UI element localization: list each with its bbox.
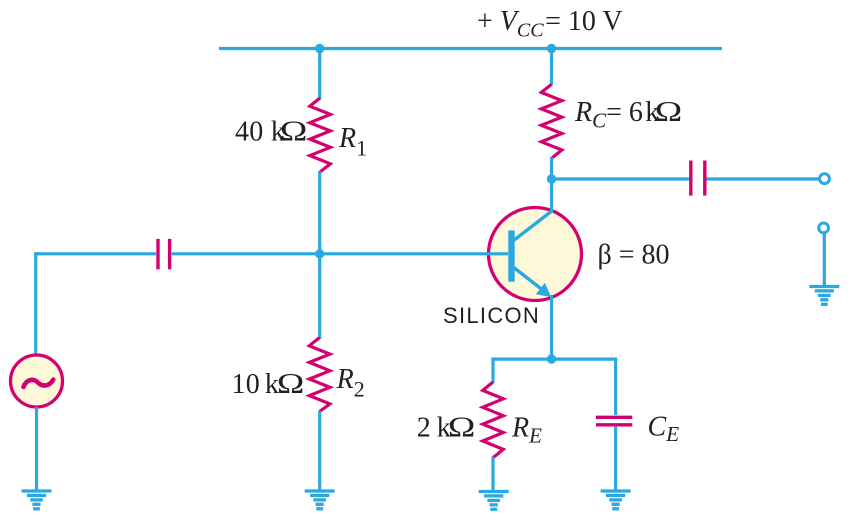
ground: R2 (305, 491, 335, 509)
svg-text:β = 80: β = 80 (598, 240, 670, 271)
svg-text:SILICON: SILICON (443, 303, 540, 328)
svg-text:RE: RE (511, 413, 542, 448)
svg-text:40 k: 40 k (235, 117, 285, 148)
capacitor CE top plate (596, 416, 632, 419)
svg-text:R2: R2 (336, 364, 365, 401)
wire: CE top lead (614, 358, 617, 416)
wire: top Vcc rail (219, 47, 722, 50)
wire: R1 top lead (318, 49, 321, 100)
wire: base wire capacitor to transistor (172, 252, 508, 255)
transistor emitter stroke (514, 268, 544, 292)
wire: R2 bottom lead (318, 411, 321, 491)
wire: RC top lead (550, 49, 553, 86)
svg-text:Ω: Ω (448, 413, 475, 444)
capacitor CE bottom plate (596, 423, 632, 426)
transistor base bar (508, 230, 514, 281)
capacitor Cin right plate (168, 239, 171, 269)
wire: source bottom lead (35, 407, 38, 491)
wire: RE top lead (491, 358, 494, 384)
svg-text:Ω: Ω (277, 369, 304, 400)
svg-text:Ω: Ω (280, 117, 307, 148)
terminal: output bottom (819, 223, 829, 233)
node junction base-R1-R2 (315, 249, 324, 258)
node junction collector-output (547, 174, 556, 183)
svg-text:R1: R1 (338, 123, 367, 160)
svg-text:Ω: Ω (655, 97, 682, 128)
resistor RE (483, 382, 504, 458)
wire: R1 bottom lead to base node (318, 171, 321, 255)
wire: R2 top lead (318, 254, 321, 339)
transistor Q1 body circle (489, 208, 582, 301)
capacitor Cout right plate (703, 161, 706, 196)
wire: RC bottom to collector (550, 157, 553, 213)
ground: source (22, 491, 52, 509)
wire: lower terminal to ground (823, 233, 826, 287)
wire: source top lead (34, 252, 37, 356)
ground: RE (479, 492, 509, 510)
capacitor Cout left plate (689, 161, 692, 196)
wire: emitter down to node (550, 295, 553, 359)
capacitor Cin left plate (156, 239, 159, 269)
svg-text:+ VCC= 10 V: + VCC= 10 V (477, 6, 623, 42)
node junction Vcc-R1 (315, 44, 324, 53)
resistor RC (541, 84, 562, 158)
svg-text:RC= 6 k: RC= 6 k (574, 97, 659, 133)
ground: output (809, 287, 839, 305)
ground: CE (601, 491, 631, 509)
transistor emitter arrowhead (536, 283, 551, 297)
node junction emitter (547, 354, 556, 363)
wire: collector node to output cap (552, 177, 690, 180)
AC source Vs circle (11, 355, 63, 407)
wire: RE bottom lead (491, 457, 494, 492)
wire: CE bottom lead (614, 427, 617, 491)
wire: emitter node horizontal (491, 358, 615, 361)
transistor collector stroke (514, 212, 551, 241)
svg-text:CE: CE (648, 411, 680, 446)
resistor R1 (310, 98, 331, 172)
wire: base wire left of capacitor (34, 252, 156, 255)
resistor R2 (309, 338, 330, 412)
svg-text:10 k: 10 k (232, 369, 280, 400)
node junction Vcc-RC (547, 44, 556, 53)
terminal: output top (820, 174, 830, 184)
svg-text:2 k: 2 k (417, 413, 451, 444)
AC source tilde (24, 380, 54, 387)
wire: output cap to terminal (707, 177, 821, 180)
